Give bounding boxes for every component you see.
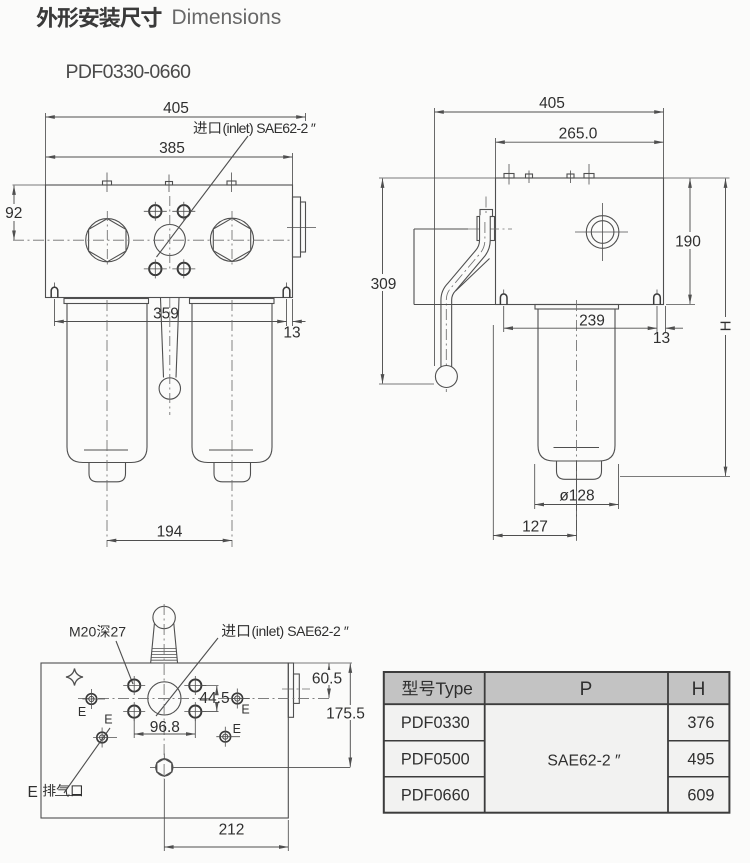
bolt hole front (183.8,268.9)	[172, 259, 195, 278]
drain centerline front	[169, 298, 171, 415]
mounting tab left top	[103, 173, 112, 193]
table header fill	[384, 672, 730, 704]
bowl centerline right	[231, 300, 233, 547]
leader M20	[116, 641, 133, 684]
bolt hole front (183.8,211.3)	[172, 202, 195, 221]
filter bowl left front	[64, 299, 149, 482]
svg-text:609: 609	[687, 786, 714, 804]
handle ball	[435, 366, 457, 388]
svg-text:E: E	[28, 784, 38, 801]
dimension 405 front	[46, 113, 306, 185]
svg-text:SAE62-2 ″: SAE62-2 ″	[547, 753, 621, 770]
dimension 190 side	[664, 178, 730, 305]
dim text 265.0	[559, 126, 598, 143]
dim text 309	[368, 274, 398, 293]
dimension 127 side	[493, 325, 576, 540]
drain tube front	[161, 298, 180, 378]
drain ball front	[159, 378, 180, 399]
dim text 405 front	[163, 100, 189, 117]
handle pipe (double stroke)	[446, 217, 485, 371]
front view group	[5, 100, 316, 547]
dim text 385 front	[159, 140, 185, 157]
handle knob top	[151, 606, 178, 662]
label E1	[78, 705, 86, 719]
bolt hole top view (134.2,711.6)	[123, 702, 145, 721]
side port outlet right	[287, 197, 316, 257]
inlet leader top view	[156, 638, 218, 716]
subtitle PDF0330-0660	[66, 61, 192, 83]
center inlet port circle front	[154, 225, 185, 256]
label E2	[241, 703, 249, 717]
dimension 92 front	[13, 185, 46, 240]
dimension 212 top view	[164, 779, 288, 851]
svg-text:Dimensions: Dimensions	[172, 6, 282, 29]
table outer border	[384, 672, 730, 813]
filter bowl right front	[190, 299, 275, 482]
handle bracket cap	[480, 210, 493, 217]
svg-text:265.0: 265.0	[559, 126, 598, 143]
extension line from hex to 175.5 dim	[173, 766, 350, 768]
side view group	[368, 95, 735, 541]
dim text 212	[219, 822, 245, 839]
filter head body side	[496, 178, 664, 305]
svg-text:E: E	[241, 703, 249, 717]
central port circle top view	[148, 682, 181, 715]
dim text 96.8	[150, 719, 180, 736]
svg-text:405: 405	[163, 100, 189, 117]
dim text 60.5	[311, 670, 342, 688]
dimension 239 side	[504, 306, 683, 332]
dim text 13 side	[653, 330, 670, 347]
inlet label top view	[222, 623, 349, 639]
table row lines col3	[668, 740, 729, 742]
mounting stud left side	[500, 290, 507, 305]
svg-text:ø128: ø128	[559, 488, 594, 505]
svg-text:(inlet) SAE62-2 ″: (inlet) SAE62-2 ″	[252, 623, 349, 639]
svg-text:P: P	[580, 679, 593, 700]
dimension 175.5 top view	[349, 664, 351, 767]
horizontal centerline front	[13, 239, 293, 241]
mounting tab center top	[166, 175, 173, 193]
title Chinese 外形安装尺寸	[36, 7, 161, 28]
svg-text:96.8: 96.8	[150, 719, 180, 736]
orientation star mark	[66, 669, 83, 686]
drain hex port top view	[150, 754, 173, 777]
side tabs on top edge	[504, 164, 594, 185]
svg-text:E: E	[233, 722, 241, 736]
dim text 175.5	[326, 705, 365, 723]
svg-text:E: E	[104, 713, 112, 727]
svg-text:Type: Type	[436, 679, 473, 699]
dimension 44.5 top view	[202, 686, 219, 712]
svg-text:405: 405	[539, 95, 565, 112]
breather port E4	[216, 727, 240, 747]
vent label leader	[55, 728, 110, 796]
label E4	[233, 722, 241, 736]
svg-text:PDF0500: PDF0500	[401, 750, 470, 768]
bolt hole top view (195.3,711.6)	[184, 702, 206, 721]
dimension 194 front	[107, 540, 232, 542]
handle pivot centerline	[468, 228, 512, 230]
svg-text:127: 127	[522, 519, 548, 536]
hex plug left front	[86, 211, 129, 267]
bolt hole front (155.3,211.3)	[144, 202, 167, 221]
dim text H	[718, 317, 735, 335]
svg-text:495: 495	[687, 750, 714, 768]
dim text 44.5	[199, 690, 229, 707]
svg-text:H: H	[692, 679, 706, 700]
bolt hole top view (134.2,685.5)	[123, 676, 145, 695]
dim text 194	[157, 524, 183, 541]
gauge port circle side	[575, 203, 628, 261]
handle pipe inner bend line	[456, 259, 490, 292]
svg-text:44.5: 44.5	[199, 690, 229, 707]
dimension H side	[620, 179, 730, 477]
handle pipe centerline	[446, 222, 485, 392]
dim text 239	[577, 312, 608, 330]
svg-text:385: 385	[159, 140, 185, 157]
svg-text:M20: M20	[69, 624, 96, 640]
mounting bracket plate side	[414, 229, 496, 305]
dim text 405 side	[539, 95, 565, 112]
label E3	[104, 713, 112, 727]
svg-text:13: 13	[653, 330, 670, 347]
svg-text:H: H	[718, 321, 735, 332]
handle clevis bracket	[477, 217, 495, 241]
dimension 96.8 top view	[134, 719, 195, 739]
filter head body front	[46, 185, 293, 298]
bowl centerline left	[106, 300, 108, 547]
dimension 60.5 top view	[288, 663, 352, 698]
dim text 190	[675, 232, 702, 251]
plate outline top view	[41, 663, 288, 818]
svg-text:PDF0660: PDF0660	[401, 786, 470, 804]
title Dimensions	[172, 6, 282, 29]
table header separator	[384, 703, 730, 705]
table header texts	[402, 679, 705, 701]
svg-text:(inlet) SAE62-2 ″: (inlet) SAE62-2 ″	[223, 120, 316, 136]
breather port E2	[228, 689, 250, 709]
hex plug right front	[210, 211, 253, 267]
vent label E paiqikou	[28, 784, 82, 801]
top view group	[28, 604, 365, 851]
mounting stud right side	[654, 290, 661, 305]
dim text 13 front	[283, 325, 300, 342]
bolt hole front (155.3,268.9)	[144, 259, 167, 278]
svg-text:190: 190	[675, 234, 701, 251]
label M20x27	[69, 624, 126, 640]
svg-text:60.5: 60.5	[312, 671, 342, 688]
mounting stud left front	[51, 283, 58, 298]
svg-text:27: 27	[111, 624, 127, 640]
table row texts	[401, 714, 715, 804]
dim text 92	[5, 204, 23, 222]
svg-text:E: E	[78, 705, 86, 719]
dimension phi128 side	[535, 464, 619, 509]
handle bracket vertical centerline	[485, 197, 487, 219]
svg-text:PDF0330: PDF0330	[401, 714, 470, 732]
svg-text:309: 309	[371, 276, 397, 293]
breather port E1	[82, 689, 105, 709]
bolt hole top view (195.3,685.5)	[184, 676, 206, 695]
horizontal centerline top view	[78, 697, 331, 699]
svg-text:239: 239	[579, 313, 605, 330]
dim text 127	[522, 519, 548, 536]
table body fill	[384, 704, 730, 813]
dimension 405 side	[435, 108, 664, 366]
svg-text:376: 376	[687, 714, 714, 732]
dimension 265.0 side	[496, 138, 664, 178]
dim text phi128	[559, 488, 594, 505]
svg-text:PDF0330-0660: PDF0330-0660	[66, 61, 192, 83]
svg-text:92: 92	[5, 205, 22, 222]
svg-text:13: 13	[283, 325, 300, 342]
inlet label front	[194, 120, 316, 136]
center vertical centerline front	[169, 196, 171, 270]
bowl centerline side	[576, 300, 578, 541]
dimension 385 front	[46, 153, 293, 185]
spec table	[384, 672, 730, 813]
table row lines col1	[384, 740, 485, 742]
svg-text:359: 359	[153, 306, 179, 323]
table column lines	[484, 672, 486, 813]
dimension 359 front	[55, 299, 306, 326]
mounting stud right front	[283, 283, 290, 298]
vertical centerline top view	[163, 604, 165, 779]
svg-text:194: 194	[157, 524, 183, 541]
inlet leader line front	[157, 136, 249, 257]
mounting tab right top	[227, 173, 236, 193]
svg-text:175.5: 175.5	[326, 706, 365, 723]
dim text 359	[150, 305, 182, 323]
svg-text:212: 212	[219, 822, 245, 839]
filter bowl side	[535, 305, 619, 480]
dimension 309	[379, 178, 496, 384]
side port tab top view	[282, 663, 310, 717]
breather port E3	[93, 728, 117, 748]
